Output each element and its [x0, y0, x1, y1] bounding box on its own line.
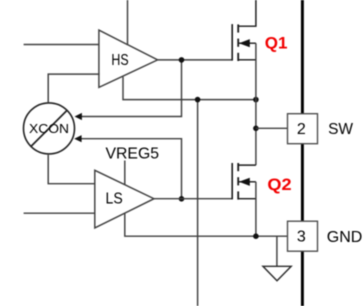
XCON circle U1	[24, 103, 75, 154]
wire: Q2 source to GND rail	[255, 182, 257, 236]
wire: VREG5 supply into LS top	[124, 161, 126, 186]
Q2 body lead	[238, 181, 256, 183]
op-amp driver LS	[95, 170, 154, 228]
node: junction HS output	[179, 57, 185, 63]
XCON diagonal slash	[31, 110, 67, 146]
ground stub	[276, 236, 278, 266]
IC boundary thick line (SW/GND pin rail)	[301, 0, 304, 306]
svg-text:SW: SW	[328, 121, 353, 138]
Q2 body arrow	[239, 178, 250, 186]
pin 2 box	[288, 114, 318, 144]
node: junction SW-ref at bus	[253, 97, 259, 103]
svg-text:VREG5: VREG5	[106, 145, 160, 162]
ground symbol	[263, 266, 291, 281]
Q1 gate bar	[231, 24, 233, 61]
node: junction LS output	[179, 196, 185, 202]
wire: HS feedback down-left to XCON upper arrow	[81, 60, 181, 117]
wire: LS output to Q2 gate	[154, 198, 232, 200]
Q1 channel dashes	[237, 24, 239, 32]
wire: HS reference stub to SW rail	[123, 77, 256, 100]
pin 3 box	[288, 221, 318, 251]
svg-text:HS: HS	[111, 52, 128, 69]
Q2 channel dashes	[237, 163, 239, 171]
svg-text:GND: GND	[327, 229, 363, 246]
svg-text:Q2: Q2	[267, 175, 291, 194]
arrowhead into XCON (lower)	[74, 135, 81, 142]
svg-text:LS: LS	[106, 191, 123, 208]
svg-text:3: 3	[297, 229, 306, 246]
Q1 source lead	[238, 59, 256, 61]
wire: XCON bottom output to LS input	[48, 155, 95, 184]
wire: BOOT supply into HS top	[127, 0, 129, 45]
wire: HS output to Q1 gate	[158, 59, 233, 61]
wire: LS feedback up-left to XCON lower arrow	[81, 139, 182, 199]
wire: SW bus vertical (Q1 source to Q2 drain)	[255, 43, 257, 165]
wire: input to LS from left	[24, 212, 96, 214]
node: junction GND rail	[253, 233, 259, 239]
wire: LS ground stub to GND rail	[125, 213, 288, 236]
wire: input to HS from left	[24, 44, 100, 46]
Q1 body lead	[238, 42, 256, 44]
op-amp driver HS	[99, 30, 158, 87]
wire: SW tap to pin 2	[256, 127, 288, 129]
wire: vertical to bottom edge from SW-ref node	[197, 100, 199, 306]
svg-text:XCON: XCON	[29, 122, 69, 136]
arrowhead into XCON (upper)	[75, 113, 82, 120]
node: junction on SW-ref line	[195, 97, 201, 103]
Q2 source lead	[238, 198, 256, 200]
Q2 gate bar	[231, 163, 233, 199]
Q1 drain lead	[238, 0, 256, 26]
svg-text:2: 2	[297, 121, 306, 138]
transistor Q2 (low-side NMOS)	[232, 163, 256, 200]
svg-text:Q1: Q1	[265, 33, 288, 52]
Q1 body arrow	[239, 39, 250, 47]
Q2 drain lead	[238, 164, 256, 166]
transistor Q1 (high-side NMOS)	[232, 0, 256, 61]
node: junction SW tap	[253, 126, 259, 132]
wire: XCON top output to HS input	[48, 74, 99, 102]
